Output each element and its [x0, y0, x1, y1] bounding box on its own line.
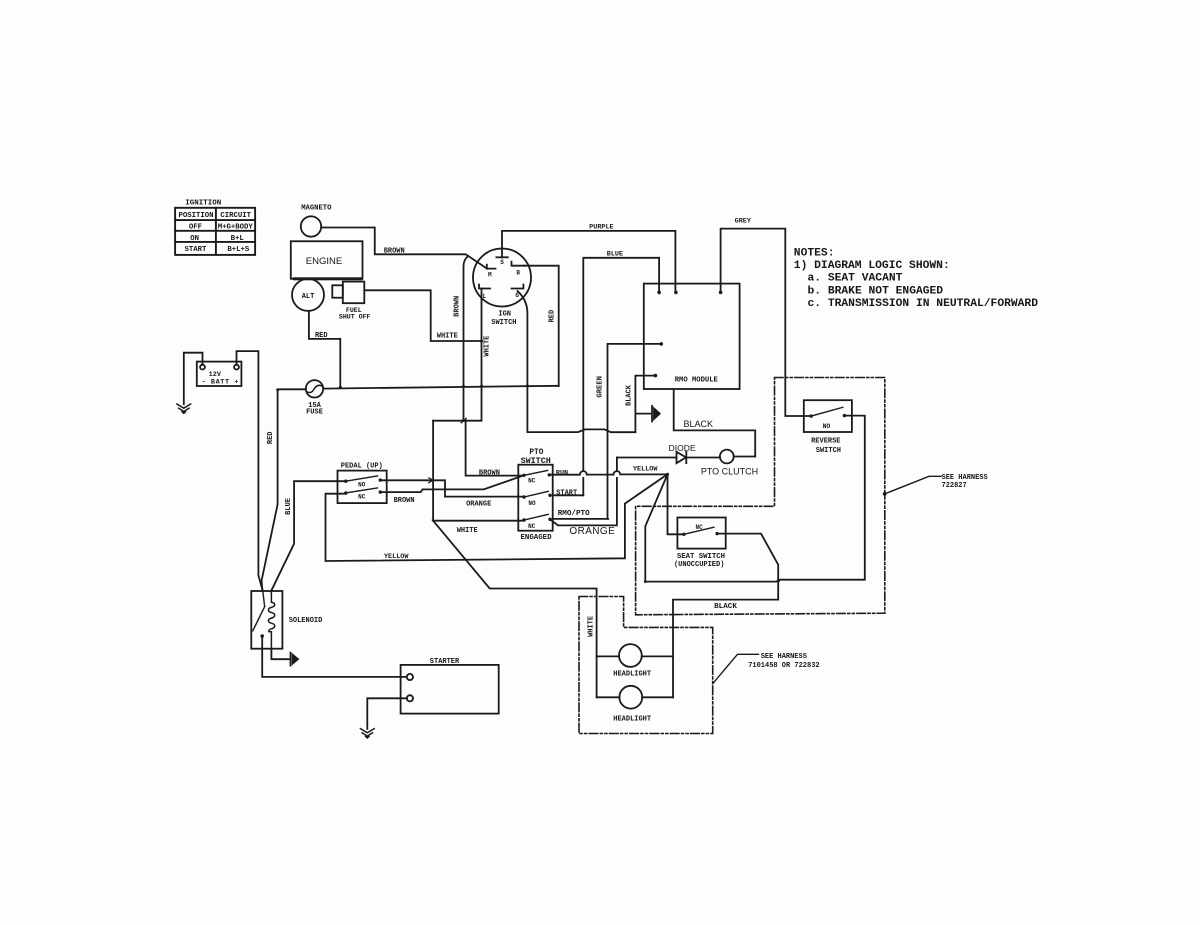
- svg-text:ON: ON: [190, 235, 199, 243]
- RMO module box: [644, 284, 740, 389]
- fuel shut off solenoid: [332, 285, 343, 297]
- svg-text:ENGAGED: ENGAGED: [520, 534, 552, 542]
- wire: pedal NO junction over to orange PTO start row: [433, 480, 522, 496]
- svg-text:IGN: IGN: [498, 310, 511, 318]
- starter box: [401, 665, 499, 714]
- wire: seat switch to black headlight return: [673, 534, 778, 698]
- svg-text:7101458 OR 722832: 7101458 OR 722832: [748, 662, 819, 670]
- wire: white down from jog to pedal and PTO white: [432, 421, 434, 521]
- svg-text:FUSE: FUSE: [306, 409, 323, 417]
- svg-text:B+L+S: B+L+S: [227, 246, 250, 254]
- PTO switch box: [518, 465, 552, 531]
- wire: solenoid output to starter: [262, 636, 407, 677]
- wire: green RMO pin to PTO circuit: [608, 344, 662, 519]
- ign switch terminal B: [512, 262, 525, 266]
- solenoid contact blade: [253, 591, 265, 631]
- headlight harness boundary: [579, 597, 713, 734]
- svg-text:HEADLIGHT: HEADLIGHT: [613, 715, 651, 723]
- ign switch terminal G: [512, 285, 524, 289]
- svg-text:RED: RED: [267, 431, 275, 444]
- svg-text:REVERSE: REVERSE: [811, 437, 840, 445]
- fuse 15A: [306, 380, 323, 397]
- svg-text:SOLENOID: SOLENOID: [289, 617, 323, 625]
- wire: starter terminal 2 to ground: [367, 698, 407, 729]
- wire: grey RMO module to reverse switch: [721, 229, 811, 416]
- solenoid coil: [268, 592, 274, 649]
- svg-text:S: S: [500, 259, 504, 266]
- svg-text:1) DIAGRAM LOGIC SHOWN:: 1) DIAGRAM LOGIC SHOWN:: [794, 260, 950, 272]
- wire: diode to PTO clutch: [686, 457, 720, 459]
- svg-text:NO: NO: [528, 500, 536, 507]
- chassis ground at solenoid: [290, 653, 292, 666]
- wire: pedal NC brown to PTO run row: [380, 476, 523, 492]
- svg-text:PEDAL (UP): PEDAL (UP): [341, 463, 383, 471]
- svg-text:SHUT OFF: SHUT OFF: [339, 314, 371, 321]
- alternator ALT: [292, 279, 324, 311]
- wire: magneto to ign switch M terminal (brown): [321, 228, 487, 269]
- svg-text:M+G+BODY: M+G+BODY: [218, 224, 254, 232]
- battery positive terminal: [234, 365, 239, 370]
- svg-text:SEAT SWITCH: SEAT SWITCH: [677, 553, 725, 561]
- ign switch terminal S: [496, 256, 507, 258]
- callout leader see harness 722827: [883, 492, 887, 496]
- svg-text:c. TRANSMISSION IN NEUTRAL/FOR: c. TRANSMISSION IN NEUTRAL/FORWARD: [808, 298, 1039, 310]
- svg-text:722827: 722827: [942, 482, 967, 490]
- svg-text:RED: RED: [315, 332, 328, 340]
- PTO switch NC run contact: [522, 474, 525, 477]
- engine box: [291, 241, 363, 279]
- svg-text:ORANGE: ORANGE: [466, 501, 491, 509]
- solenoid box: [251, 591, 282, 649]
- svg-text:BLACK: BLACK: [683, 419, 713, 429]
- wire: ign L white down to jog: [481, 289, 483, 421]
- wire: pedal NO out to white junction: [380, 479, 433, 481]
- wire: pedal NC to yellow bus: [326, 474, 668, 561]
- magneto: [301, 216, 321, 236]
- battery 12V: [197, 362, 242, 386]
- svg-text:NC: NC: [528, 478, 536, 485]
- svg-text:ALT: ALT: [302, 293, 315, 301]
- svg-text:NC: NC: [358, 493, 366, 500]
- pedal switch NO contact: [344, 480, 347, 483]
- battery negative terminal: [200, 365, 205, 370]
- svg-text:BROWN: BROWN: [453, 296, 461, 317]
- svg-text:SWITCH: SWITCH: [491, 319, 516, 327]
- svg-text:SEE HARNESS: SEE HARNESS: [942, 474, 988, 482]
- svg-text:NO: NO: [823, 423, 831, 430]
- wire: battery rail from fuse to ign B: [323, 386, 559, 389]
- harness boundary around reverse and seat switches: [636, 378, 885, 615]
- wire: pedal NO to solenoid coil (blue): [271, 481, 346, 591]
- jog junction joining white and brown verticals: [433, 420, 481, 422]
- wire: ign G down to ground bus: [518, 291, 636, 432]
- svg-text:STARTER: STARTER: [430, 658, 460, 666]
- RMO module top pin 3: [719, 291, 723, 295]
- RMO module left pin green: [660, 342, 664, 346]
- svg-text:DIODE: DIODE: [668, 443, 695, 453]
- svg-text:BLACK: BLACK: [714, 603, 737, 611]
- svg-text:NC: NC: [528, 523, 536, 530]
- wire: black RMO bottom pin to PTO clutch: [674, 389, 756, 457]
- starter terminal 1: [407, 674, 413, 680]
- wire: brown down from jog to PTO run row: [466, 421, 522, 476]
- seat switch box: [677, 518, 725, 549]
- wire: ALT output (red) to fuse rail: [309, 311, 340, 387]
- wire: ign B to battery rail (red): [525, 266, 559, 386]
- wire: PTO clutch to black return: [734, 456, 756, 458]
- chassis ground at RMO module: [651, 406, 653, 421]
- svg-text:- BATT +: - BATT +: [202, 378, 239, 386]
- svg-text:GREY: GREY: [735, 218, 752, 226]
- wire: PTO rmo/pto row to green riser: [553, 518, 609, 520]
- wire: headlight 2 leads: [597, 696, 673, 698]
- svg-text:a. SEAT VACANT: a. SEAT VACANT: [808, 273, 903, 285]
- svg-text:NOTES:: NOTES:: [794, 247, 835, 259]
- ign switch terminal L: [479, 285, 490, 289]
- pedal switch NC contact: [344, 491, 347, 494]
- svg-text:RUN: RUN: [556, 469, 568, 477]
- svg-text:START: START: [556, 489, 577, 497]
- ign switch terminal M: [487, 265, 496, 269]
- wire: black bus to reverse switch: [645, 416, 865, 582]
- PTO switch NO start contact: [522, 495, 525, 498]
- svg-text:NC: NC: [695, 524, 703, 531]
- svg-text:POSITION: POSITION: [178, 212, 213, 220]
- solenoid contact stud: [260, 634, 264, 638]
- headlight 1: [619, 644, 642, 667]
- RMO module top pin 2: [674, 291, 678, 295]
- wire: purple ign S to RMO module: [502, 231, 675, 292]
- diode D1: [677, 452, 687, 463]
- reverse switch NO contact: [809, 414, 812, 417]
- svg-text:BLUE: BLUE: [607, 251, 623, 259]
- svg-text:CIRCUIT: CIRCUIT: [220, 212, 251, 220]
- wire: white PTO engaged feed and headlight run: [433, 521, 596, 698]
- svg-text:(UNOCCUPIED): (UNOCCUPIED): [674, 561, 724, 569]
- svg-text:BROWN: BROWN: [479, 469, 500, 477]
- ignition table: [175, 208, 255, 255]
- junction blobs: [276, 340, 780, 583]
- svg-text:RMO/PTO: RMO/PTO: [558, 510, 590, 518]
- wire: brown fork down from magneto wire: [464, 256, 469, 420]
- junction tick at pedal NO wire: [429, 478, 434, 483]
- svg-text:SWITCH: SWITCH: [816, 447, 841, 455]
- ign switch body: [473, 249, 531, 307]
- wire: headlight 1 leads: [597, 655, 673, 657]
- svg-text:YELLOW: YELLOW: [633, 466, 658, 474]
- wire: fan node diagonal to black bus: [645, 474, 667, 581]
- svg-text:M: M: [488, 271, 492, 278]
- wire: black RMO pin to ground: [635, 376, 655, 433]
- wire: battery positive (red) down to solenoid: [237, 351, 263, 591]
- ign terminal letters: [483, 259, 521, 300]
- PTO clutch coil: [720, 450, 734, 464]
- svg-text:ORANGE: ORANGE: [569, 526, 615, 537]
- PTO switch NC engaged contact: [522, 518, 525, 521]
- svg-text:G: G: [515, 292, 519, 299]
- wire: PTO start to blue riser: [553, 494, 584, 496]
- headlight 2: [619, 686, 642, 709]
- wire: solenoid coil to ground: [271, 649, 289, 660]
- svg-text:b. BRAKE NOT ENGAGED: b. BRAKE NOT ENGAGED: [808, 285, 944, 297]
- callout leader see harness 7101458: [713, 654, 759, 684]
- wire: blue RMO module to start circuit: [583, 258, 659, 496]
- svg-text:BLACK: BLACK: [625, 384, 633, 406]
- svg-text:PTO CLUTCH: PTO CLUTCH: [701, 466, 758, 476]
- wire: fuse feed from solenoid battery stud: [262, 389, 306, 591]
- svg-text:ENGINE: ENGINE: [306, 256, 342, 267]
- RMO module left pin black: [654, 374, 658, 378]
- svg-text:IGNITION: IGNITION: [185, 199, 221, 207]
- svg-text:NO: NO: [358, 481, 366, 488]
- svg-text:HEADLIGHT: HEADLIGHT: [613, 670, 651, 678]
- svg-text:WHITE: WHITE: [457, 527, 478, 535]
- svg-text:SWITCH: SWITCH: [521, 456, 551, 466]
- wire: fuel shut off to white junction: [364, 290, 481, 341]
- wire: orange PTO engaged to diode over yellow: [550, 458, 617, 526]
- svg-text:L: L: [483, 293, 487, 300]
- svg-text:RED: RED: [549, 310, 557, 323]
- svg-text:B+L: B+L: [231, 235, 244, 243]
- svg-text:BROWN: BROWN: [394, 497, 415, 505]
- junction tick at jog: [461, 418, 466, 422]
- svg-text:SEE HARNESS: SEE HARNESS: [761, 653, 807, 661]
- svg-text:BLUE: BLUE: [285, 498, 293, 515]
- svg-text:WHITE: WHITE: [437, 333, 458, 341]
- svg-text:YELLOW: YELLOW: [384, 553, 409, 561]
- seat switch NC contact: [682, 533, 685, 536]
- ground symbol at battery: [177, 404, 191, 413]
- svg-text:RMO MODULE: RMO MODULE: [675, 376, 719, 384]
- svg-text:GREEN: GREEN: [596, 376, 604, 398]
- svg-text:PURPLE: PURPLE: [589, 223, 613, 231]
- svg-text:WHITE: WHITE: [587, 616, 595, 637]
- diode feed wire: [617, 457, 677, 459]
- wire: PTO run to fan node (yellow): [549, 471, 667, 475]
- RMO module top pin 1: [657, 291, 661, 295]
- svg-text:B: B: [516, 270, 520, 277]
- svg-text:WHITE: WHITE: [484, 336, 492, 357]
- svg-text:START: START: [185, 246, 208, 254]
- svg-text:BROWN: BROWN: [384, 248, 405, 256]
- reverse switch box: [804, 400, 852, 432]
- starter terminal 2: [407, 695, 413, 701]
- wire: battery negative to ground: [184, 353, 203, 405]
- svg-text:OFF: OFF: [189, 224, 202, 232]
- pedal switch box: [338, 471, 387, 504]
- fan node wires: yellow net hub: [668, 474, 684, 534]
- svg-text:MAGNETO: MAGNETO: [301, 205, 332, 213]
- ground symbol at starter: [360, 729, 374, 738]
- engine box thick base: [293, 277, 363, 280]
